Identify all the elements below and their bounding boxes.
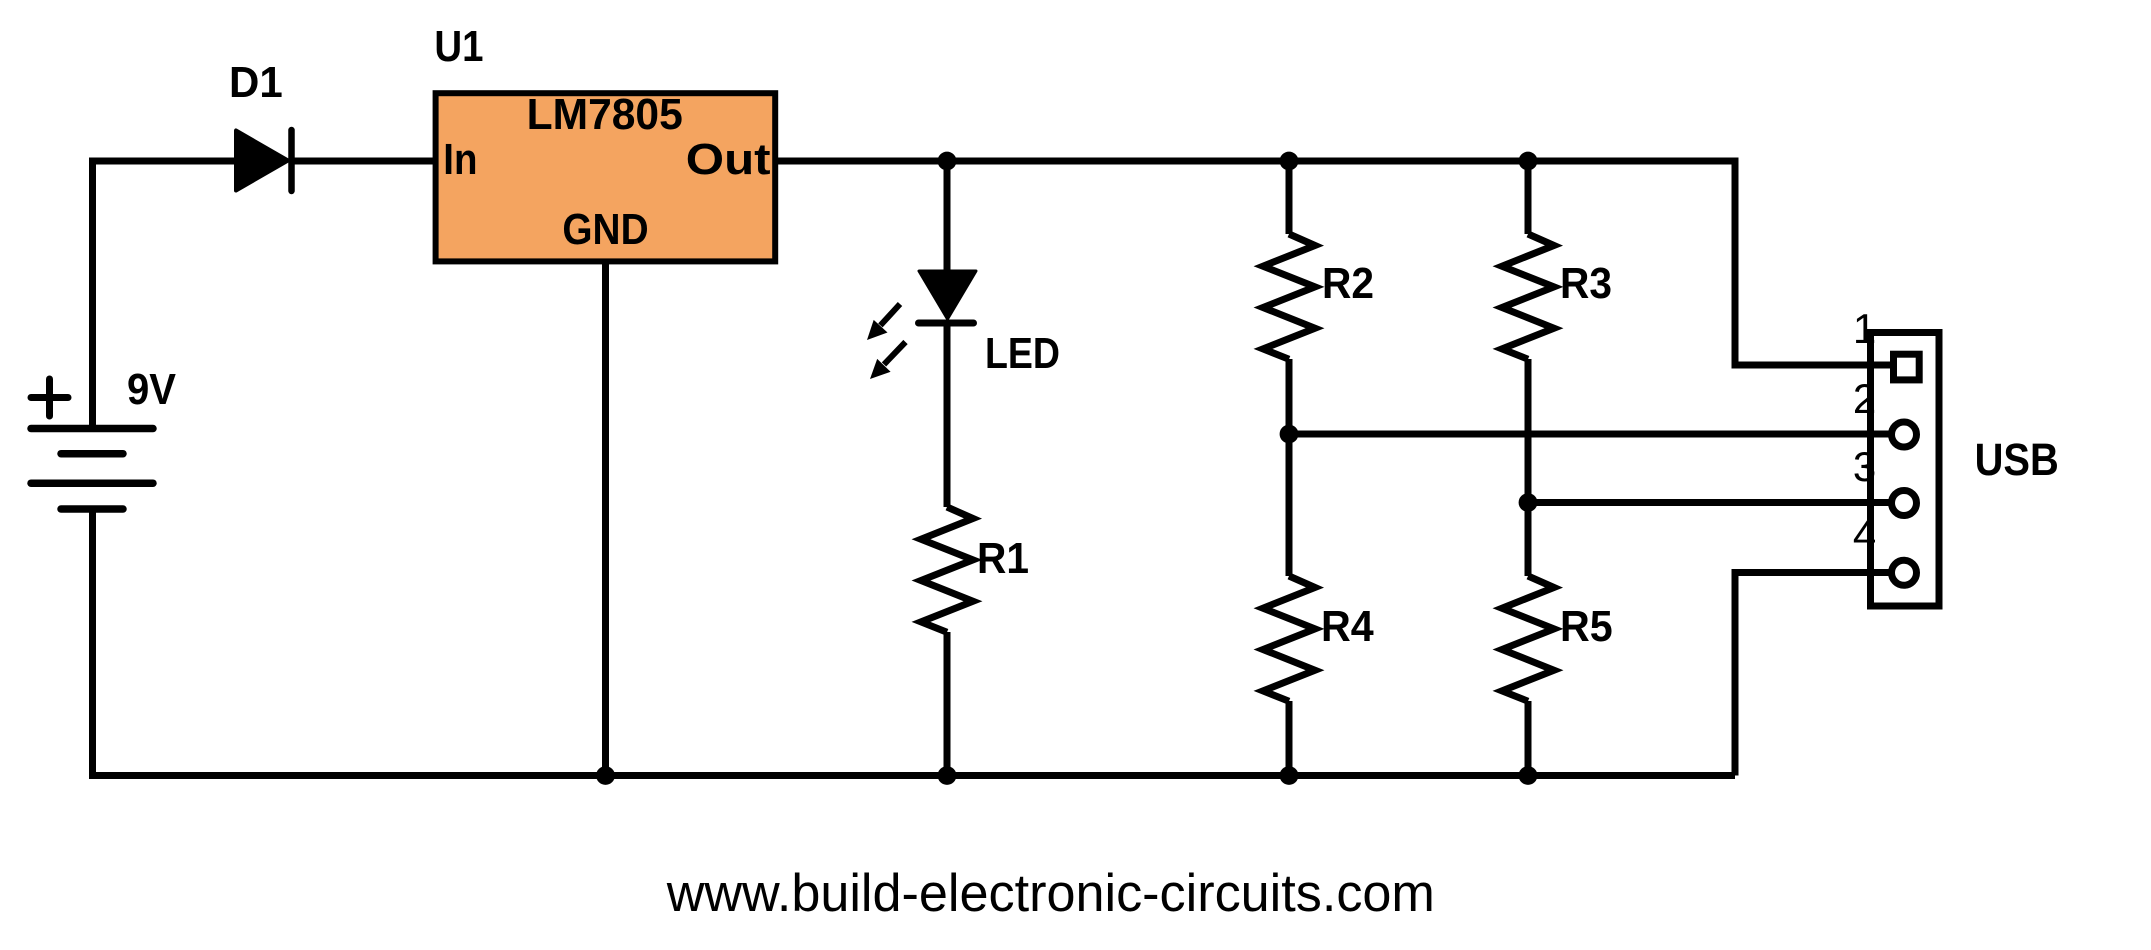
wire R2 bottom through node to R4 top xyxy=(1286,359,1293,576)
svg-text:D1: D1 xyxy=(229,59,283,107)
battery 9V plates xyxy=(31,429,153,510)
svg-text:USB: USB xyxy=(1975,434,2059,485)
wire bottom-right up to USB pin 4 xyxy=(1735,573,1896,776)
battery plus sign xyxy=(31,379,68,416)
resistor R1 xyxy=(921,507,973,632)
wire resistor R1 to bottom rail xyxy=(944,632,951,776)
wire R5 bottom to rail xyxy=(1525,701,1532,776)
regulator U1 LM7805 box xyxy=(436,91,776,261)
wire R3 branch top xyxy=(1525,161,1532,234)
node dot bottom R4 xyxy=(1280,766,1299,785)
LED arrow 2 xyxy=(870,342,906,379)
USB pin 3 pad xyxy=(1892,491,1917,516)
LED arrow 1 xyxy=(867,304,900,340)
USB connector body xyxy=(1871,333,1940,607)
resistor R5 xyxy=(1502,576,1554,701)
svg-text:www.build-electronic-circuits.: www.build-electronic-circuits.com xyxy=(666,864,1435,923)
node dot A R2-R4 to pin2 xyxy=(1280,425,1299,444)
svg-text:GND: GND xyxy=(562,206,648,254)
wire top-left: battery plus up and across to diode xyxy=(93,161,237,429)
wire battery minus down to bottom rail xyxy=(89,509,96,776)
svg-text:In: In xyxy=(443,136,477,184)
svg-text:LM7805: LM7805 xyxy=(527,91,683,139)
svg-text:R1: R1 xyxy=(977,535,1029,583)
node dot bottom GND xyxy=(596,766,615,785)
wire bottom rail xyxy=(89,772,1735,779)
node dot top R2 xyxy=(1280,152,1299,171)
node dot top LED xyxy=(938,152,957,171)
resistor R2 xyxy=(1263,234,1315,359)
svg-text:9V: 9V xyxy=(127,366,176,414)
wire diode to regulator In xyxy=(294,158,437,165)
resistor R4 xyxy=(1263,576,1315,701)
wire LED branch top xyxy=(944,161,951,273)
resistor R3 xyxy=(1502,234,1554,359)
wire R4 bottom to rail xyxy=(1286,701,1293,776)
svg-text:Out: Out xyxy=(686,136,771,184)
wire regulator GND down xyxy=(602,260,609,776)
svg-text:LED: LED xyxy=(985,330,1060,378)
LED xyxy=(919,271,977,323)
wire LED cathode to resistor R1 xyxy=(944,323,951,507)
node dot bottom R1 xyxy=(938,766,957,785)
wire R2 branch top xyxy=(1286,161,1293,234)
USB pin 4 pad xyxy=(1892,560,1917,585)
diode D1 xyxy=(236,130,292,191)
node dot bottom R5 xyxy=(1519,766,1538,785)
svg-text:R2: R2 xyxy=(1322,260,1374,308)
node dot B R3-R5 to pin3 xyxy=(1519,493,1538,512)
svg-text:R4: R4 xyxy=(1321,603,1374,651)
svg-text:R3: R3 xyxy=(1560,260,1612,308)
wire R3 bottom through node to R5 top xyxy=(1525,359,1532,576)
wire regulator Out to top-right corner and down to USB pin 1 xyxy=(774,161,1896,365)
svg-text:R5: R5 xyxy=(1560,603,1613,651)
wire node A to USB pin 2 xyxy=(1289,431,1896,438)
wire node B to USB pin 3 xyxy=(1528,499,1896,506)
USB pin 2 pad xyxy=(1892,422,1917,447)
node dot top R3 xyxy=(1519,152,1538,171)
USB pin 1 square pad xyxy=(1894,354,1920,380)
svg-text:U1: U1 xyxy=(434,23,483,71)
